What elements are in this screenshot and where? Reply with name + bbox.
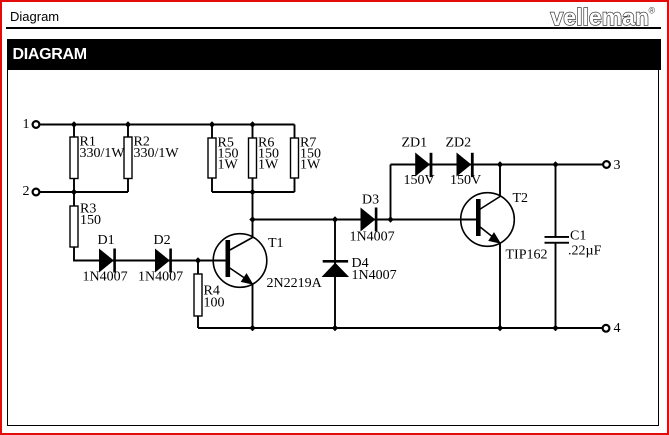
page title Diagram: [10, 9, 59, 24]
svg-text:1N4007: 1N4007: [138, 270, 183, 285]
terminal 3: [603, 158, 620, 173]
wire rail from terminal 2 to R2: [40, 191, 128, 193]
wire T2 emitter to bottom rail: [499, 243, 501, 328]
junction top rail R6: [249, 121, 255, 127]
diode D4: [323, 256, 397, 283]
svg-text:ZD2: ZD2: [446, 136, 472, 151]
junction top rail R1: [71, 121, 77, 127]
svg-text:150V: 150V: [404, 173, 435, 188]
junction bottom rail D4: [332, 325, 338, 331]
diode D1: [83, 233, 128, 285]
junction node line D4: [332, 216, 338, 222]
wire C1 top lead: [555, 165, 557, 237]
svg-text:150: 150: [80, 213, 101, 228]
wire R1 top stub: [73, 125, 75, 139]
zener diode ZD1: [402, 136, 435, 189]
capacitor C1: [545, 229, 602, 259]
svg-text:T1: T1: [268, 236, 284, 251]
svg-text:150V: 150V: [450, 173, 481, 188]
resistor R5: [208, 136, 239, 179]
svg-text:D1: D1: [98, 233, 115, 248]
wire riser from D3 node to zener line: [390, 165, 392, 220]
junction node line riser: [387, 216, 393, 222]
svg-text:1N4007: 1N4007: [83, 270, 128, 285]
zener diode ZD2: [446, 136, 482, 189]
wire bottom rail from R4 to terminal 4: [198, 327, 603, 329]
wire R7 top stub: [294, 125, 296, 139]
wire C1 bottom lead: [555, 244, 557, 329]
svg-text:1W: 1W: [258, 158, 279, 173]
resistor R1: [70, 135, 125, 179]
svg-text:1N4007: 1N4007: [350, 230, 395, 245]
junction bottom rail T1 emitter: [249, 325, 255, 331]
svg-text:1W: 1W: [300, 158, 321, 173]
wire R2 top stub: [127, 125, 129, 139]
svg-text:T2: T2: [513, 191, 529, 206]
junction zener line C1: [552, 161, 558, 167]
junction top rail R2: [125, 121, 131, 127]
svg-text:330/1W: 330/1W: [80, 146, 126, 161]
junction zener line T2 collector: [497, 161, 503, 167]
junction rail2 R3: [71, 189, 77, 195]
junction base line R4: [195, 257, 201, 263]
resistor R7: [291, 136, 322, 179]
svg-text:TIP162: TIP162: [506, 248, 548, 263]
wire R4 top stub: [197, 261, 199, 275]
diode D2: [138, 233, 183, 285]
svg-text:2N2219A: 2N2219A: [267, 276, 323, 291]
svg-text:ZD1: ZD1: [402, 136, 428, 151]
wire R2 bottom stub: [127, 178, 129, 192]
resistor R6: [249, 136, 280, 179]
horizontal rule under title: [6, 27, 661, 29]
svg-text:C1: C1: [570, 229, 586, 244]
transistor T2: [461, 191, 548, 263]
svg-text:330/1W: 330/1W: [134, 146, 180, 161]
wire zener line to terminal 3: [391, 164, 604, 166]
wire R6 bottom stub: [252, 178, 254, 192]
wire base line through D1 D2 to T1 base: [100, 260, 227, 262]
wire R5 top stub: [211, 125, 213, 139]
diode D3: [350, 193, 395, 245]
transistor T1: [213, 234, 322, 291]
svg-text:1: 1: [23, 117, 30, 132]
wire T1 collector feed: [252, 192, 254, 238]
svg-text:4: 4: [614, 321, 621, 336]
terminal 4: [603, 321, 621, 336]
terminal 2: [23, 184, 40, 199]
svg-text:D2: D2: [154, 233, 171, 248]
wire R1 bottom stub: [73, 178, 75, 192]
svg-text:3: 3: [614, 158, 621, 173]
svg-text:.22µF: .22µF: [568, 244, 602, 259]
wire top rail from terminal 1 to R7: [40, 124, 295, 126]
svg-text:2: 2: [23, 184, 30, 199]
resistor R2: [124, 135, 179, 179]
svg-text:D3: D3: [362, 193, 379, 208]
svg-text:1W: 1W: [218, 158, 239, 173]
wire T1 emitter to bottom rail: [252, 284, 254, 328]
junction top rail R5: [209, 121, 215, 127]
wire R3 top stub: [73, 192, 75, 206]
wire R6 top stub: [252, 125, 254, 139]
junction node line T1 collector: [249, 216, 255, 222]
wire R5 bottom stub: [211, 178, 213, 192]
wire R3 bottom stub to base line: [74, 247, 100, 261]
wire D4 branch from node line to bottom rail: [334, 220, 336, 329]
wire node line through D3 to T2 base: [253, 219, 477, 221]
resistor R3: [70, 202, 101, 248]
svg-text:1N4007: 1N4007: [352, 268, 397, 283]
black DIAGRAM header bar: [7, 39, 661, 71]
junction bottom rail T2 emitter: [497, 325, 503, 331]
wire rail joining R5 R6 R7 bottoms: [212, 191, 295, 193]
wire R7 bottom stub: [294, 178, 296, 192]
svg-text:100: 100: [204, 296, 225, 311]
wire R4 bottom stub: [197, 316, 199, 328]
resistor R4: [194, 274, 225, 316]
junction bottom rail C1: [552, 325, 558, 331]
terminal 1: [23, 117, 40, 132]
junction R6 bottom rail: [249, 189, 255, 195]
wire T2 collector feed: [499, 165, 501, 198]
